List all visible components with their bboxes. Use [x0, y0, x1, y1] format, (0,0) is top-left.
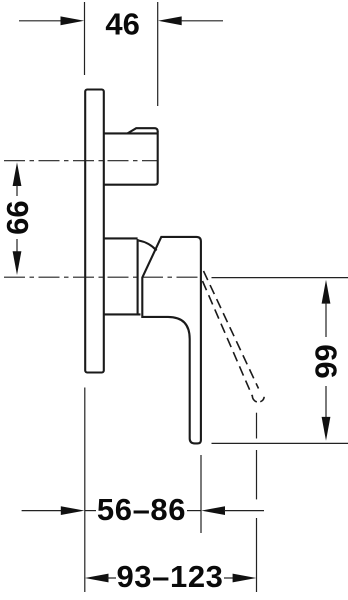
extension line lever right edge — [200, 455, 202, 533]
extension line dashed lever tip seg1 — [256, 413, 258, 439]
dim 56-86 line right stub — [187, 510, 201, 512]
lever handle solid — [142, 237, 201, 444]
svg-text:66: 66 — [0, 200, 35, 234]
lever handle dashed alternate position left edge — [203, 281, 253, 396]
upper centerline — [4, 160, 158, 162]
dim 66 right line lower — [325, 386, 327, 418]
dim 46 right leader — [181, 20, 223, 22]
dim 66 right lower arrowhead — [322, 417, 331, 441]
dim 66 left line upper — [16, 185, 18, 196]
svg-text:93–123: 93–123 — [116, 559, 223, 594]
escutcheon dome curve — [139, 241, 157, 251]
dim 93-123 line right stub — [224, 577, 233, 579]
diverter knob body — [105, 131, 158, 185]
svg-text:46: 46 — [105, 6, 139, 41]
lower centerline — [4, 276, 199, 278]
dim 93-123 left arrowhead — [85, 574, 109, 583]
dim 56-86 line left stub — [85, 510, 96, 512]
dim 66 right line upper — [325, 303, 327, 338]
dim 46 left leader — [19, 20, 62, 22]
dim 46 left arrowhead — [61, 16, 85, 25]
extension line bottom left — [84, 388, 86, 593]
diverter knob tab — [128, 128, 158, 133]
extension line right of dim 46 — [157, 2, 159, 106]
svg-text:66: 66 — [309, 344, 344, 378]
centerline extension solid right — [212, 277, 348, 279]
escutcheon — [105, 238, 141, 314]
dim 56-86 right arrowhead — [201, 506, 225, 515]
dim 66 left upper arrowhead — [13, 162, 22, 186]
dim 56-86 left arrowhead — [61, 506, 85, 515]
dim 46 right arrowhead — [158, 16, 182, 25]
dim 66 left line lower — [16, 239, 18, 252]
lever handle dashed tip arc — [252, 395, 264, 402]
lever tip reference line — [212, 442, 348, 444]
svg-text:56–86: 56–86 — [97, 492, 186, 527]
dim 93-123 line left stub — [107, 577, 116, 579]
extension line left of dim 46 — [84, 2, 86, 75]
dim 66 right upper arrowhead — [322, 280, 331, 304]
extension line dashed lever tip seg2 — [256, 450, 258, 499]
dim 56-86 left leader — [22, 510, 62, 512]
dim 93-123 right arrowhead — [233, 574, 257, 583]
lever handle dashed alternate position right edge — [204, 271, 259, 389]
wall plate — [85, 90, 104, 373]
dim 56-86 right leader — [224, 510, 264, 512]
extension line dashed lever tip seg3 — [256, 518, 258, 592]
dim 66 left lower arrowhead — [13, 251, 22, 275]
